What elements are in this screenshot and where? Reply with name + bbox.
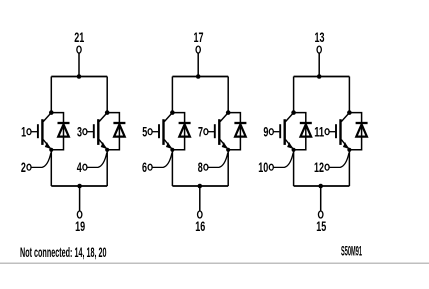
pin 6 (aux emitter terminal) [142, 153, 172, 175]
svg-text:1: 1 [21, 123, 26, 139]
svg-text:21: 21 [74, 29, 84, 45]
pin 7 (gate terminal) [198, 123, 208, 139]
svg-text:15: 15 [316, 218, 326, 234]
wire [227, 77, 229, 113]
wire [227, 150, 229, 186]
pin 21 (collector terminal) [74, 29, 84, 53]
diode D6 (freewheeling, cathode up) [356, 123, 368, 137]
pin 3 (gate terminal) [77, 123, 87, 139]
wire (bottom rail) [294, 185, 350, 187]
svg-text:Not connected: 14, 18, 20: Not connected: 14, 18, 20 [20, 244, 107, 260]
svg-text:10: 10 [258, 159, 268, 175]
node (emitter junction) [49, 148, 53, 152]
svg-text:3: 3 [77, 123, 82, 139]
wire (top rail) [294, 76, 350, 78]
horizontal rule [0, 262, 429, 264]
node (emitter junction) [170, 148, 174, 152]
wire (diode branch) [228, 113, 240, 150]
node (emitter junction) [105, 148, 109, 152]
wire [171, 150, 173, 186]
node (collector junction) [291, 110, 296, 115]
wire [106, 150, 108, 186]
svg-text:13: 13 [315, 29, 325, 45]
transistor Q4 (IGBT) [208, 113, 228, 149]
wire [348, 77, 350, 113]
pin 5 (gate terminal) [142, 123, 152, 139]
wire [348, 150, 350, 186]
pin 2 (aux emitter terminal) [21, 153, 51, 175]
wire [79, 186, 81, 211]
wire [78, 53, 80, 76]
wire [197, 53, 199, 76]
wire [199, 186, 201, 211]
wire (diode branch) [107, 113, 119, 150]
diode D2 (freewheeling, cathode up) [113, 123, 125, 137]
pin 9 (gate terminal) [263, 123, 273, 139]
pin 4 (aux emitter terminal) [77, 153, 107, 175]
transistor Q2 (IGBT) [87, 113, 107, 149]
wire (bottom rail) [51, 185, 107, 187]
node (emitter junction) [347, 148, 351, 152]
svg-text:2: 2 [21, 159, 26, 175]
pin 16 (emitter terminal) [195, 211, 205, 234]
wire (bottom rail) [172, 185, 228, 187]
transistor Q3 (IGBT) [152, 113, 172, 149]
node (emitter junction) [226, 148, 230, 152]
pin 13 (collector terminal) [315, 29, 325, 53]
wire [50, 77, 52, 113]
wire [171, 77, 173, 113]
svg-text:6: 6 [142, 159, 147, 175]
wire (diode branch) [294, 113, 306, 150]
wire (diode branch) [349, 113, 361, 150]
pin 11 (gate terminal) [314, 123, 329, 139]
transistor Q1 (IGBT) [31, 113, 51, 149]
node (bottom rail junction) [77, 184, 82, 189]
diode D1 (freewheeling, cathode up) [58, 123, 70, 137]
diode D3 (freewheeling, cathode up) [179, 123, 191, 137]
transistor Q6 (IGBT) [329, 113, 349, 149]
wire (top rail) [172, 76, 228, 78]
wire [106, 77, 108, 113]
svg-text:9: 9 [263, 123, 268, 139]
svg-text:12: 12 [314, 159, 324, 175]
svg-text:5: 5 [142, 123, 147, 139]
node (emitter junction) [292, 148, 296, 152]
svg-text:7: 7 [198, 123, 203, 139]
svg-text:19: 19 [75, 218, 85, 234]
diode D5 (freewheeling, cathode up) [300, 123, 312, 137]
svg-text:16: 16 [195, 218, 205, 234]
wire [293, 77, 295, 113]
pin 10 (aux emitter terminal) [258, 153, 293, 175]
svg-text:4: 4 [77, 159, 82, 175]
node (bottom rail junction) [318, 184, 323, 189]
wire (top rail) [51, 76, 107, 78]
pin 17 (collector terminal) [194, 29, 204, 53]
wire [50, 150, 52, 186]
node (bottom rail junction) [198, 184, 203, 189]
transistor Q5 (IGBT) [273, 113, 293, 149]
svg-text:11: 11 [314, 123, 324, 139]
pin 1 (gate terminal) [21, 123, 31, 139]
pin 15 (emitter terminal) [316, 211, 326, 234]
node (collector junction) [226, 110, 231, 115]
wire (diode branch) [172, 113, 184, 150]
diode D4 (freewheeling, cathode up) [234, 123, 246, 137]
wire (diode branch) [51, 113, 63, 150]
svg-text:S50M91: S50M91 [341, 243, 362, 259]
wire [320, 186, 322, 211]
node (top rail junction) [196, 74, 201, 79]
node (top rail junction) [317, 74, 322, 79]
wire [293, 150, 295, 186]
node (collector junction) [347, 110, 352, 115]
wire [318, 53, 320, 76]
svg-text:8: 8 [198, 159, 203, 175]
node (top rail junction) [77, 74, 82, 79]
node (collector junction) [105, 110, 110, 115]
pin 12 (aux emitter terminal) [314, 153, 349, 175]
pin 8 (aux emitter terminal) [198, 153, 228, 175]
svg-text:17: 17 [194, 29, 204, 45]
pin 19 (emitter terminal) [75, 211, 85, 234]
node (collector junction) [170, 110, 175, 115]
node (collector junction) [49, 110, 54, 115]
